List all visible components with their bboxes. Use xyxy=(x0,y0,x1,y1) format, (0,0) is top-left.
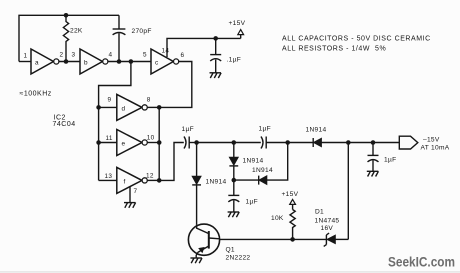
capacitor bypass .1uF xyxy=(210,38,221,72)
wire rail B to cap2 xyxy=(234,142,261,144)
svg-text:22K: 22K xyxy=(70,28,83,35)
svg-text:1µF: 1µF xyxy=(384,157,396,164)
svg-text:74C04: 74C04 xyxy=(53,121,76,128)
diode D3 1N914 B to C xyxy=(229,143,238,181)
svg-text:+15V: +15V xyxy=(229,20,246,27)
wire output bus xyxy=(158,107,160,180)
terminal +15V top xyxy=(238,30,244,39)
wire e out xyxy=(147,142,159,144)
inverter b xyxy=(80,49,108,74)
svg-text:≈100KHz: ≈100KHz xyxy=(20,91,52,98)
capacitor C3 1uF series xyxy=(261,137,313,149)
node E xyxy=(346,140,351,145)
svg-text:e: e xyxy=(122,141,126,148)
svg-text:13: 13 xyxy=(105,173,113,180)
svg-text:10: 10 xyxy=(147,135,155,142)
svg-text:1: 1 xyxy=(24,53,28,60)
svg-text:ALL RESISTORS - 1/4W 5%: ALL RESISTORS - 1/4W 5% xyxy=(282,46,386,53)
svg-text:.1µF: .1µF xyxy=(227,57,242,64)
svg-text:270pF: 270pF xyxy=(132,28,152,35)
svg-text:1µF: 1µF xyxy=(182,126,194,133)
svg-text:9: 9 xyxy=(108,97,112,104)
resistor 10K xyxy=(290,210,295,240)
wire a out xyxy=(59,61,80,63)
zener D1 1N4745 xyxy=(324,233,349,246)
svg-text:–15V: –15V xyxy=(423,137,440,144)
svg-text:5: 5 xyxy=(143,52,147,59)
node bus pin8 xyxy=(157,105,162,110)
svg-text:1µF: 1µF xyxy=(246,199,258,206)
svg-text:2: 2 xyxy=(60,52,64,59)
svg-text:1µF: 1µF xyxy=(259,126,271,133)
svg-text:f: f xyxy=(124,179,126,186)
svg-text:ALL CAPACITORS - 50V DISC CERA: ALL CAPACITORS - 50V DISC CERAMIC xyxy=(282,36,431,43)
svg-text:D1: D1 xyxy=(315,209,324,216)
ground bypass xyxy=(210,73,222,78)
inverter a xyxy=(31,49,59,74)
svg-text:11: 11 xyxy=(106,135,113,142)
diode D2 1N914 clamp to base xyxy=(192,143,201,225)
capacitor 270pF xyxy=(113,15,126,61)
diode D5 1N914 series output xyxy=(313,138,399,147)
capacitor C4 1uF output xyxy=(368,143,379,172)
svg-text:1N4745: 1N4745 xyxy=(315,218,340,225)
svg-text:Q1: Q1 xyxy=(226,247,235,254)
transistor Q1 2N2222 xyxy=(188,224,219,258)
ground C4 xyxy=(367,171,379,176)
wire collector rail xyxy=(220,238,327,240)
node buffer branch junction xyxy=(129,59,134,64)
capacitor C2 1uF at node C xyxy=(228,180,239,212)
bottom scan artifact xyxy=(0,271,460,272)
wire zener riser xyxy=(347,143,349,240)
ground C2 xyxy=(228,212,240,217)
ground pin7 xyxy=(124,203,136,208)
svg-text:10K: 10K xyxy=(271,215,284,222)
svg-text:AT 10mA: AT 10mA xyxy=(421,145,450,152)
node B xyxy=(232,140,237,145)
wire input stub f xyxy=(99,179,117,181)
node F xyxy=(371,140,376,145)
svg-text:7: 7 xyxy=(134,188,138,195)
node a-b junction xyxy=(64,59,69,64)
wire branch to buffer inputs xyxy=(99,62,131,181)
svg-text:a: a xyxy=(35,60,39,67)
node D xyxy=(285,140,290,145)
svg-text:3: 3 xyxy=(72,52,76,59)
svg-text:8: 8 xyxy=(147,97,151,104)
wire b out rail xyxy=(108,61,151,63)
svg-text:1N914: 1N914 xyxy=(306,127,327,134)
wire pin6 to bus xyxy=(159,62,192,108)
svg-text:+15V: +15V xyxy=(282,191,299,198)
wire input stub d xyxy=(99,106,117,108)
svg-text:6: 6 xyxy=(181,52,185,59)
wire input stub e xyxy=(99,142,117,144)
inverter f xyxy=(117,167,147,193)
node bus e xyxy=(96,140,101,145)
svg-text:16V: 16V xyxy=(321,225,334,232)
node C xyxy=(232,178,237,183)
inverter c xyxy=(151,49,179,74)
svg-text:c: c xyxy=(155,60,159,67)
svg-text:4: 4 xyxy=(109,52,113,59)
wire pin14 to +15V xyxy=(167,38,241,57)
svg-text:1N914: 1N914 xyxy=(252,167,273,174)
diode D4 1N914 C to D xyxy=(234,143,288,185)
node bus pin10 xyxy=(157,140,162,145)
svg-text:12: 12 xyxy=(146,173,154,180)
inverter e xyxy=(117,130,147,156)
inverter d xyxy=(117,94,147,120)
node bypass junction xyxy=(213,36,218,41)
wire d out xyxy=(147,106,159,108)
wire f out xyxy=(147,179,159,181)
svg-text:14: 14 xyxy=(162,48,170,55)
node bus pin12 xyxy=(157,178,162,183)
terminal +15V bottom xyxy=(290,199,296,209)
svg-text:d: d xyxy=(122,106,126,113)
capacitor C1 1uF coupling xyxy=(184,137,197,149)
wire pin7 stem xyxy=(129,187,131,203)
node G collector xyxy=(290,237,295,242)
terminal output pointer xyxy=(399,136,418,149)
node cap junction xyxy=(117,59,122,64)
resistor R 22K xyxy=(63,15,68,61)
wire feedback top xyxy=(19,15,119,61)
svg-text:1N914: 1N914 xyxy=(206,179,227,186)
wire rail A-B xyxy=(197,142,234,144)
wire pin12 to coupling cap xyxy=(159,143,184,181)
node bus d xyxy=(96,105,101,110)
svg-text:b: b xyxy=(84,60,88,67)
svg-text:1N914: 1N914 xyxy=(243,158,264,165)
svg-text:2N2222: 2N2222 xyxy=(226,255,251,262)
svg-text:SeekIC.com: SeekIC.com xyxy=(388,255,455,270)
ground emitter xyxy=(190,258,202,263)
node A xyxy=(194,140,199,145)
node top junction xyxy=(64,13,69,18)
